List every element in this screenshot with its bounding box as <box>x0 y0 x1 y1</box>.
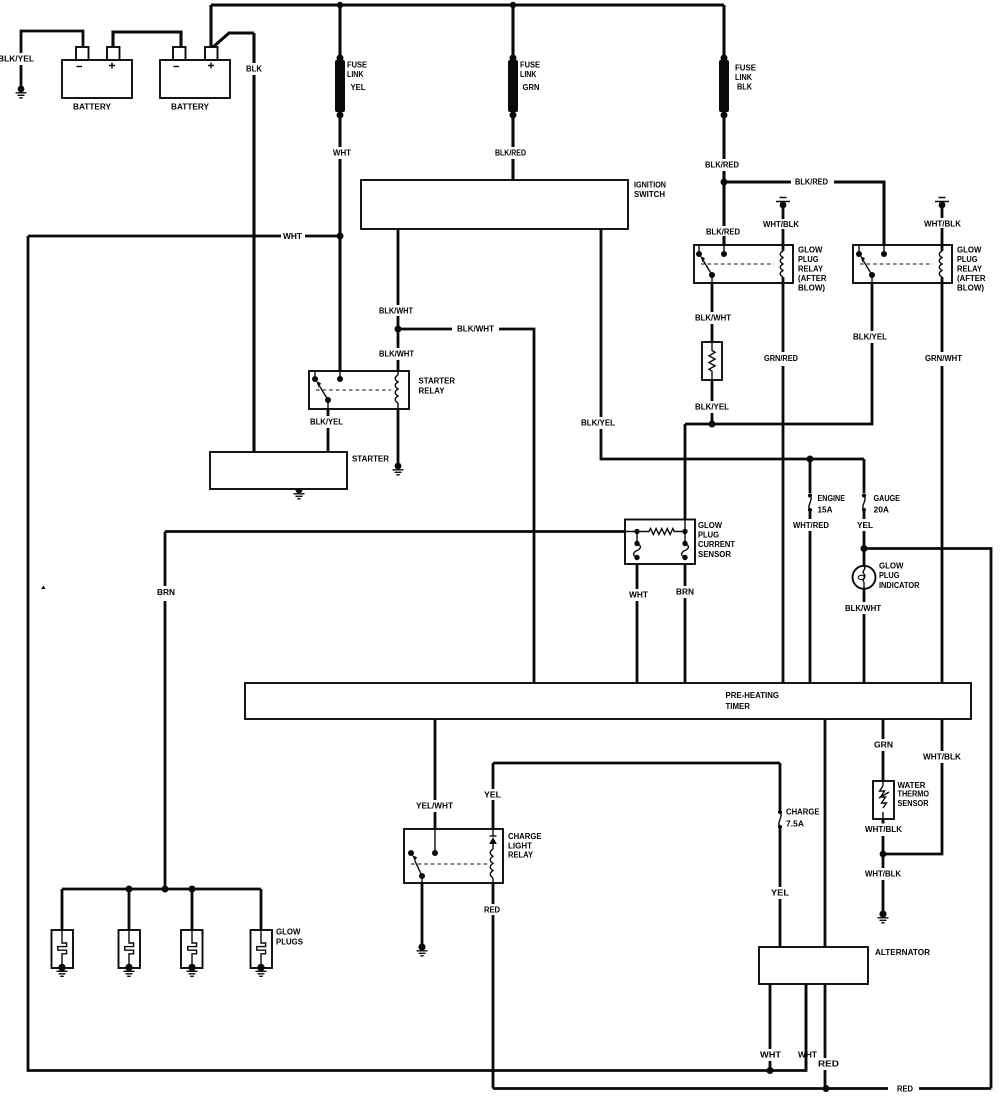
wire WHT/BLK ground to glow plug relay 2 coil <box>941 207 944 250</box>
fuse CHARGE 7.5A <box>778 810 782 814</box>
svg-text:ENGINE: ENGINE <box>818 493 846 503</box>
svg-text:7.5A: 7.5A <box>786 819 804 829</box>
svg-text:WHT/BLK: WHT/BLK <box>865 869 902 879</box>
svg-text:BLK/WHT: BLK/WHT <box>379 306 414 316</box>
wire BLK/WHT ignition switch to starter relay coil <box>397 229 400 374</box>
starter box <box>210 452 347 489</box>
ground glow plug relay 2 coil (top ground) <box>935 198 949 202</box>
svg-text:BRN: BRN <box>157 587 175 597</box>
wire BLK/WHT glow plug indicator to timer <box>863 589 866 683</box>
current sensor internal feed stubs <box>625 520 685 532</box>
wire right rail to bottom RED line <box>864 549 991 1089</box>
glow plug relay 2 switch <box>858 245 860 254</box>
svg-text:PLUG: PLUG <box>879 570 900 580</box>
node junction top bus / fuse link grn <box>510 2 516 8</box>
svg-text:PLUGS: PLUGS <box>276 936 303 946</box>
svg-text:CHARGE: CHARGE <box>508 831 542 841</box>
wire BLK/RED branch to glow plug relay 2 <box>724 182 884 254</box>
svg-text:BLK: BLK <box>246 64 263 74</box>
wire BLK/YEL battery1 minus to ground <box>21 31 83 87</box>
svg-text:BLK/YEL: BLK/YEL <box>853 332 887 342</box>
svg-text:BLK/YEL: BLK/YEL <box>310 417 343 427</box>
wire WHT long rail left-bottom to alternator <box>28 236 806 1071</box>
svg-text:GRN: GRN <box>523 82 540 92</box>
glow plug relay 1 dashed line <box>701 263 774 265</box>
pre-heating timer box <box>245 683 971 719</box>
wire battery1 plus to battery2 minus link <box>113 32 181 47</box>
starter relay coil <box>397 371 399 409</box>
svg-text:BLK/WHT: BLK/WHT <box>845 603 882 613</box>
node junction glow plug 2 <box>126 886 133 893</box>
wire BLK/WHT branch to pre-heating timer <box>398 329 534 683</box>
artifact small mark <box>41 586 46 590</box>
node junction BRN feed on glow plug bus <box>162 886 169 893</box>
wire WHT/RED engine fuse to timer <box>809 512 812 683</box>
fuse link BLK <box>721 55 728 62</box>
starter relay box <box>309 371 409 409</box>
wire bottom RED line <box>493 1087 991 1090</box>
glow plug current sensor box <box>625 520 695 565</box>
svg-text:PLUG: PLUG <box>957 254 978 264</box>
wire GAUGE fuse drop <box>863 459 866 493</box>
svg-text:BLK/YEL: BLK/YEL <box>0 54 34 64</box>
svg-text:SENSOR: SENSOR <box>698 549 732 559</box>
svg-text:IGNITION: IGNITION <box>634 180 666 190</box>
svg-text:WHT: WHT <box>283 231 303 241</box>
svg-text:BLOW): BLOW) <box>957 283 984 293</box>
node junction YEL indicator / right rail <box>861 545 868 552</box>
svg-text:GRN: GRN <box>874 740 893 750</box>
svg-text:GRN/WHT: GRN/WHT <box>925 353 963 363</box>
svg-text:FUSE: FUSE <box>347 60 367 70</box>
wire CHARGE fuse drop <box>779 763 782 810</box>
node junction top bus / fuse link yel <box>337 2 343 8</box>
ignition switch box <box>361 180 628 229</box>
svg-text:WHT/BLK: WHT/BLK <box>763 219 800 229</box>
svg-text:PRE-HEATING: PRE-HEATING <box>726 690 780 700</box>
svg-text:YEL: YEL <box>771 888 789 898</box>
svg-text:FUSE: FUSE <box>520 60 540 70</box>
svg-text:(AFTER: (AFTER <box>798 273 827 283</box>
svg-text:BLK/RED: BLK/RED <box>706 227 740 237</box>
svg-text:WHT/BLK: WHT/BLK <box>865 824 903 834</box>
fuse ENGINE 15A <box>808 493 812 497</box>
svg-text:BLOW): BLOW) <box>798 283 825 293</box>
wire YEL gauge fuse to indicator junction <box>863 512 866 547</box>
wire glow plugs bus <box>62 889 261 930</box>
svg-text:SWITCH: SWITCH <box>634 189 665 199</box>
wire BLK/RED fuse link grn to ignition switch <box>511 117 514 180</box>
alternator box <box>759 947 868 984</box>
wire top bus to fuse link blk <box>722 5 725 55</box>
svg-text:BLK/RED: BLK/RED <box>795 177 828 187</box>
wire battery2 plus to top bus <box>209 5 212 47</box>
charge light relay coil <box>492 844 494 849</box>
node junction BLK/RED branch <box>721 179 728 186</box>
wire top supply bus <box>211 3 724 6</box>
svg-text:BATTERY: BATTERY <box>171 102 209 112</box>
node junction ENGINE fuse feed <box>807 456 814 463</box>
current sensor left sense coil <box>636 532 638 544</box>
svg-text:GLOW: GLOW <box>276 927 301 937</box>
svg-text:GLOW: GLOW <box>698 520 723 530</box>
svg-text:WHT/BLK: WHT/BLK <box>924 219 962 229</box>
svg-text:GRN/RED: GRN/RED <box>764 353 798 363</box>
svg-text:PLUG: PLUG <box>698 530 719 540</box>
diode D1 in charge light relay <box>492 829 494 836</box>
charge light relay box <box>404 829 503 883</box>
glow plug indicator lamp <box>853 566 876 589</box>
wire glow plug current sensor left feed <box>165 530 637 533</box>
svg-text:BATTERY: BATTERY <box>73 102 111 112</box>
starter relay switch <box>314 371 316 379</box>
glow plug relay 1 coil <box>782 245 785 283</box>
wire GRN timer to water thermo sensor <box>882 719 885 781</box>
wire starter relay coil to ground <box>397 406 400 463</box>
svg-text:GAUGE: GAUGE <box>874 493 901 503</box>
svg-text:15A: 15A <box>818 505 833 515</box>
svg-text:RELAY: RELAY <box>798 264 823 274</box>
svg-text:PLUG: PLUG <box>798 254 819 264</box>
charge light relay YEL/WHT feed stub <box>434 829 436 853</box>
svg-text:BLK/WHT: BLK/WHT <box>457 324 495 334</box>
svg-text:CURRENT: CURRENT <box>698 539 736 549</box>
svg-text:20A: 20A <box>874 505 890 515</box>
wire BLK/RED fuse link blk to glow plug relay 1 <box>722 117 725 254</box>
wire WHT alternator 1 to rail <box>769 984 772 1071</box>
battery B1 <box>62 60 132 98</box>
ground starter <box>296 487 303 494</box>
svg-text:BLK/RED: BLK/RED <box>705 160 739 170</box>
svg-text:LINK: LINK <box>520 69 537 79</box>
svg-text:GLOW: GLOW <box>798 245 823 255</box>
node BLK/RED feed into relay 1 <box>723 245 725 254</box>
svg-text:RED: RED <box>818 1059 839 1069</box>
wire YEL timer area to charge fuse <box>493 763 780 829</box>
wire fuse link yel drop from bus <box>338 5 341 55</box>
current sensor shunt resistor <box>637 529 685 535</box>
svg-text:STARTER: STARTER <box>419 376 456 386</box>
svg-text:FUSE: FUSE <box>735 63 756 73</box>
svg-text:GLOW: GLOW <box>957 245 982 255</box>
svg-text:ALTERNATOR: ALTERNATOR <box>875 947 931 957</box>
charge light relay dashed line <box>411 863 488 865</box>
node junction WHT rail <box>337 233 344 240</box>
wire WHT/BLK ground to glow plug relay 1 coil <box>782 207 785 250</box>
wire feed to glow plug current sensor right terminal <box>684 424 687 531</box>
wire WHT alternator 2 to rail <box>805 984 808 1071</box>
glow plug 4 <box>251 930 273 968</box>
svg-text:WHT/RED: WHT/RED <box>793 520 829 530</box>
ground BLK/YEL top-left <box>18 86 25 93</box>
wire YEL junction to glow plug indicator <box>863 549 866 567</box>
svg-text:BLK/WHT: BLK/WHT <box>695 313 732 323</box>
current sensor terminal nodes <box>634 529 639 534</box>
svg-text:WHT: WHT <box>798 1050 818 1060</box>
wire BLK/WHT glow plug relay 1 switch to resistor <box>711 277 714 342</box>
wire BLK/YEL resistor to junction <box>711 380 714 424</box>
node BLK/RED feed into relay 2 <box>883 245 885 254</box>
ground charge light relay <box>418 943 425 950</box>
wire WHT current sensor to timer <box>636 558 639 683</box>
wire YEL/WHT timer to charge light relay <box>434 719 437 853</box>
svg-text:YEL: YEL <box>351 82 366 92</box>
ground starter relay <box>395 463 402 470</box>
svg-text:BLK/RED: BLK/RED <box>495 148 526 158</box>
svg-text:BRN: BRN <box>676 587 694 597</box>
svg-text:RELAY: RELAY <box>419 385 445 395</box>
wire WHT fuse link yel to starter relay <box>338 117 341 379</box>
node junction alternator RED on bottom line <box>823 1085 830 1092</box>
svg-text:BLK: BLK <box>737 82 753 92</box>
wire GRN/WHT glow plug relay 2 coil to timer <box>941 278 944 683</box>
svg-text:RELAY: RELAY <box>957 264 982 274</box>
ground water thermo sensor <box>879 910 886 917</box>
resistor R1 (relay 1 output) <box>702 342 722 380</box>
svg-text:BLK/WHT: BLK/WHT <box>379 349 415 359</box>
svg-text:GLOW: GLOW <box>879 560 904 570</box>
wire WHT/BLK junction to ground <box>882 854 885 911</box>
svg-text:(AFTER: (AFTER <box>957 273 986 283</box>
svg-text:THERMO: THERMO <box>898 789 930 799</box>
glow plug 1 <box>52 930 74 968</box>
wire GRN/RED glow plug relay 1 coil to timer <box>782 278 785 683</box>
glow plug 2 <box>119 930 141 968</box>
starter relay dashed line <box>316 389 391 391</box>
wire BLK/YEL starter relay switch to starter <box>327 408 330 452</box>
svg-text:CHARGE: CHARGE <box>786 807 820 817</box>
wire fuse link grn drop from bus <box>511 5 514 55</box>
svg-text:WHT: WHT <box>333 148 352 158</box>
svg-text:TIMER: TIMER <box>726 701 751 711</box>
node junction WHT/BLK <box>880 851 887 858</box>
svg-text:BLK/YEL: BLK/YEL <box>581 418 615 428</box>
battery B2 <box>160 60 230 98</box>
wire YEL charge fuse to alternator <box>779 829 782 947</box>
svg-text:RED: RED <box>484 905 500 915</box>
glow plug relay 1 switch <box>698 245 700 254</box>
svg-text:INDICATOR: INDICATOR <box>879 580 920 590</box>
svg-text:WHT: WHT <box>760 1050 782 1060</box>
node junction BLK/YEL to current sensor <box>709 421 716 428</box>
wire timer to alternator through line <box>824 719 827 1086</box>
node WHT feed into starter relay <box>339 371 341 379</box>
ground glow plug relay 1 coil (top ground) <box>776 198 790 202</box>
node junction BLK/WHT branch <box>395 326 402 333</box>
svg-text:YEL: YEL <box>484 790 501 800</box>
glow plug relay 1 box <box>694 245 793 283</box>
water thermo sensor box <box>873 781 894 819</box>
wire BLK battery2 plus to starter <box>212 33 254 452</box>
svg-text:WHT: WHT <box>629 590 649 600</box>
wire RED charge light relay to bottom line <box>492 883 495 1089</box>
wire WHT/BLK water thermo sensor to junction <box>882 819 885 852</box>
svg-text:RED: RED <box>897 1084 913 1094</box>
wire WHT/BLK junction to timer (right branch) <box>883 719 942 854</box>
wire BRN current sensor feed to glow plugs <box>164 532 167 890</box>
svg-text:LINK: LINK <box>347 69 364 79</box>
node junction alternator WHT1 on bottom rail <box>767 1067 774 1074</box>
wire charge light relay switch to ground <box>421 879 424 944</box>
fuse link YEL <box>337 55 344 62</box>
node junction glow plug 3 <box>189 886 196 893</box>
glow plug relay 2 coil <box>941 245 944 283</box>
wire ENGINE fuse drop <box>809 459 812 493</box>
svg-text:WHT/BLK: WHT/BLK <box>923 752 962 762</box>
svg-text:SENSOR: SENSOR <box>898 798 930 808</box>
glow plug relay 2 box <box>853 245 952 283</box>
glow plug relay 2 dashed line <box>860 263 933 265</box>
svg-text:LINK: LINK <box>735 72 753 82</box>
svg-text:RELAY: RELAY <box>508 850 533 860</box>
svg-text:YEL/WHT: YEL/WHT <box>416 801 454 811</box>
wire BLK/YEL ignition switch to accessory fuses <box>601 229 864 459</box>
charge light relay switch <box>408 850 414 856</box>
svg-text:YEL: YEL <box>857 520 873 530</box>
wire BLK/YEL glow plug relay 2 switch to junction rail <box>685 277 872 424</box>
current sensor right sense coil <box>684 532 686 544</box>
glow plug 3 <box>181 930 203 968</box>
fuse link GRN <box>510 55 517 62</box>
svg-text:BLK/YEL: BLK/YEL <box>695 402 729 412</box>
fuse GAUGE 20A <box>862 493 866 497</box>
wire BRN current sensor to timer <box>684 558 687 683</box>
svg-text:STARTER: STARTER <box>352 454 390 464</box>
